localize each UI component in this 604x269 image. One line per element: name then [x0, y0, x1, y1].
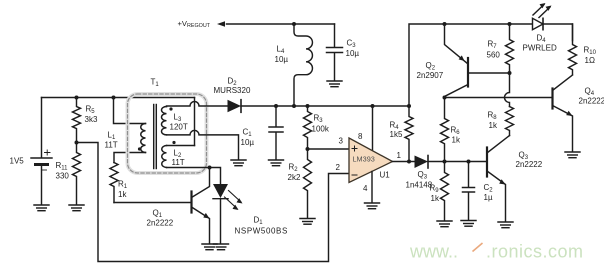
svg-text:MURS320: MURS320	[214, 86, 251, 95]
ground under C2	[461, 221, 476, 227]
svg-text:NSPW500BS: NSPW500BS	[235, 227, 288, 236]
node R3 top	[306, 104, 310, 108]
inductor L1 11T primary winding	[141, 124, 146, 153]
wire L1 top lead	[114, 98, 146, 124]
wire op-amp output pin 1	[393, 161, 415, 163]
ground under op-amp pin 4	[365, 203, 380, 209]
wire to op-amp pin 3	[308, 148, 350, 150]
node L4 bottom	[292, 104, 296, 108]
svg-text:560: 560	[487, 51, 501, 60]
svg-text:C1: C1	[243, 128, 253, 139]
svg-text:Q4: Q4	[585, 87, 595, 98]
svg-text:R1: R1	[118, 180, 128, 191]
node L3 polarity dot	[169, 107, 172, 110]
resistor R9 1k	[441, 162, 449, 221]
node Q2 emitter at rail	[443, 22, 447, 26]
resistor R2 2k2	[304, 149, 312, 218]
node R7 top at rail	[508, 22, 512, 26]
svg-text:1k: 1k	[431, 194, 440, 203]
svg-text:10µ: 10µ	[275, 55, 289, 64]
op-amp - symbol	[352, 174, 357, 176]
wire R7 junction to R8 with hop over base wire	[505, 73, 510, 107]
capacitor C2 1u	[463, 162, 475, 221]
transistor Q4 2n2222	[553, 75, 573, 152]
svg-text:R6: R6	[451, 126, 461, 137]
svg-text:10µ: 10µ	[241, 138, 255, 147]
node pin8 top	[371, 104, 375, 108]
svg-text:2n2907: 2n2907	[417, 71, 444, 80]
svg-text:R5: R5	[86, 105, 96, 116]
ground transformer secondary return	[231, 160, 246, 166]
wire op-amp pin 4 to ground	[371, 172, 373, 203]
svg-text:2k2: 2k2	[288, 173, 301, 182]
capacitor C3 10u	[327, 24, 343, 81]
resistor R1 1k	[110, 163, 118, 203]
node VREGOUT arrow	[217, 21, 225, 27]
node L2 polarity dot	[172, 141, 175, 144]
wire L1 bottom lead to R1	[114, 153, 146, 163]
svg-text:LM393: LM393	[353, 155, 375, 164]
ground under R9	[437, 221, 452, 227]
wire battery feed vertical inside box	[194, 98, 196, 146]
resistor R11 330	[73, 143, 81, 205]
node R4 top junction	[407, 104, 411, 108]
ground under R2	[300, 219, 315, 225]
wire D3 cathode to Q3 base	[428, 161, 486, 163]
svg-text:1: 1	[397, 151, 402, 160]
svg-text:10µ: 10µ	[346, 49, 360, 58]
svg-text:Q3: Q3	[418, 170, 428, 181]
node R4 bottom / output junction	[407, 160, 411, 164]
op-amp U1 LM393	[349, 138, 393, 183]
svg-text:2n2222: 2n2222	[516, 160, 543, 169]
svg-text:2n2222: 2n2222	[147, 219, 174, 228]
svg-text:R7: R7	[488, 40, 498, 51]
ground under battery	[34, 205, 49, 211]
svg-text:U1: U1	[380, 171, 391, 180]
ground under C1	[269, 160, 284, 166]
wire VREGOUT rail	[227, 23, 335, 25]
node battery rail / R5 junction	[75, 96, 79, 100]
svg-text:330: 330	[56, 172, 70, 181]
resistor R7 560	[506, 24, 514, 73]
ground under C3	[327, 81, 342, 87]
svg-text:2n2222: 2n2222	[579, 97, 604, 106]
inductor L4 10u filter	[294, 24, 312, 106]
watermark www.cntronics.com	[409, 242, 584, 262]
svg-text:4: 4	[363, 184, 368, 193]
svg-text:100k: 100k	[312, 125, 330, 134]
node C2 top	[467, 160, 471, 164]
LED D1 NSPW500BS	[213, 184, 243, 244]
wire rail continues inside transformer box to vertical feed	[114, 97, 195, 99]
svg-text:L4: L4	[277, 45, 285, 56]
svg-text:1k: 1k	[118, 190, 127, 199]
svg-text:120T: 120T	[170, 123, 188, 132]
svg-text:11T: 11T	[172, 158, 185, 167]
wire rail D4 to R10	[543, 24, 573, 41]
wire junction to D1 anode	[210, 168, 221, 184]
svg-text:R11: R11	[56, 161, 69, 172]
node R3/R2 pin3 junction	[306, 147, 310, 151]
diode D4 PWRLED	[533, 3, 552, 30]
svg-text:11T: 11T	[105, 141, 118, 150]
wire op-amp pin 8 supply	[372, 106, 374, 151]
wire boost rail up to top-right rail	[409, 24, 533, 106]
inductor L2 11T winding	[162, 146, 167, 168]
svg-text:C2: C2	[484, 183, 494, 194]
svg-text:C3: C3	[347, 39, 357, 50]
transformer T1 dashed box	[128, 94, 207, 173]
node R5/R11 divider tap	[75, 141, 79, 145]
battery B1 1V5	[31, 98, 52, 205]
svg-text:R3: R3	[314, 114, 324, 125]
wire boost rail D2 cathode to R4	[241, 105, 409, 107]
resistor R8 1k	[506, 107, 514, 136]
resistor R10 1R	[569, 24, 577, 75]
resistor R3 100k	[304, 106, 312, 149]
transistor Q2 2n2907	[445, 24, 510, 97]
svg-text:1Ω: 1Ω	[585, 56, 595, 65]
capacitor C1 10u	[269, 106, 283, 160]
wire L2 bottom lead	[167, 167, 210, 169]
svg-text:R9: R9	[430, 184, 440, 195]
wire battery+ rail top-left	[42, 97, 114, 99]
svg-text:+VREGOUT: +VREGOUT	[178, 19, 211, 29]
node L1 polarity dot	[138, 147, 141, 150]
svg-text:R8: R8	[488, 111, 498, 122]
ground under Q4 emitter	[565, 152, 580, 158]
svg-text:D1: D1	[254, 216, 264, 227]
svg-text:L1: L1	[108, 131, 116, 142]
wire L3 bottom lead with hop to ground	[167, 130, 239, 159]
svg-text:1V5: 1V5	[10, 157, 25, 166]
ground under R11	[69, 205, 84, 211]
transistor Q3 2n2222	[487, 136, 510, 222]
op-amp + symbol	[352, 146, 357, 151]
transformer core	[153, 105, 155, 169]
inductor L3 120T secondary	[162, 107, 167, 135]
wire Q2 collector to Q4 base	[445, 97, 552, 99]
resistor R5 3k3	[73, 98, 81, 143]
wire L2 top lead	[167, 145, 195, 147]
svg-text:1k5: 1k5	[390, 130, 403, 139]
svg-text:R10: R10	[584, 46, 597, 57]
node R7/Q2 base junction	[508, 71, 512, 75]
node L2/Q1 collector/D1 junction	[208, 166, 212, 170]
wire L3 top lead with hop to D2	[167, 102, 228, 107]
wire divider tap to bottom rail	[77, 143, 350, 262]
diode D3 1n4148	[415, 156, 429, 169]
svg-text:www..: www..	[409, 242, 458, 262]
node L4 top at VREGOUT rail	[292, 22, 296, 26]
svg-text:R2: R2	[289, 163, 299, 174]
svg-text:T1: T1	[151, 78, 160, 89]
node R6/R9 junction	[443, 160, 447, 164]
node C1 top	[274, 104, 278, 108]
transistor Q1 2n2222	[192, 168, 210, 244]
svg-text:L3: L3	[174, 113, 182, 124]
svg-text:8: 8	[358, 132, 363, 141]
node L1 top at rail	[112, 96, 116, 100]
wire R1 to Q1 base	[114, 202, 191, 204]
svg-text:.ronics.com: .ronics.com	[486, 242, 584, 262]
svg-text:1k: 1k	[452, 136, 461, 145]
svg-text:D4: D4	[537, 34, 547, 45]
svg-text:3: 3	[339, 137, 344, 146]
diode D2 MURS320	[228, 100, 242, 113]
svg-text:Q1: Q1	[153, 209, 163, 220]
svg-text:PWRLED: PWRLED	[523, 44, 557, 53]
resistor R6 1k	[441, 98, 449, 162]
ground under D1 cathode	[214, 244, 229, 250]
ground under Q1 emitter	[202, 244, 217, 250]
node Q2 collector junction	[443, 96, 447, 100]
svg-text:1µ: 1µ	[484, 193, 493, 202]
resistor R4 1k5	[405, 106, 413, 162]
svg-text:Q2: Q2	[426, 61, 436, 72]
svg-text:2: 2	[336, 163, 341, 172]
svg-text:3k3: 3k3	[85, 115, 98, 124]
svg-text:1k: 1k	[489, 121, 498, 130]
ground under Q3 emitter	[498, 222, 513, 228]
